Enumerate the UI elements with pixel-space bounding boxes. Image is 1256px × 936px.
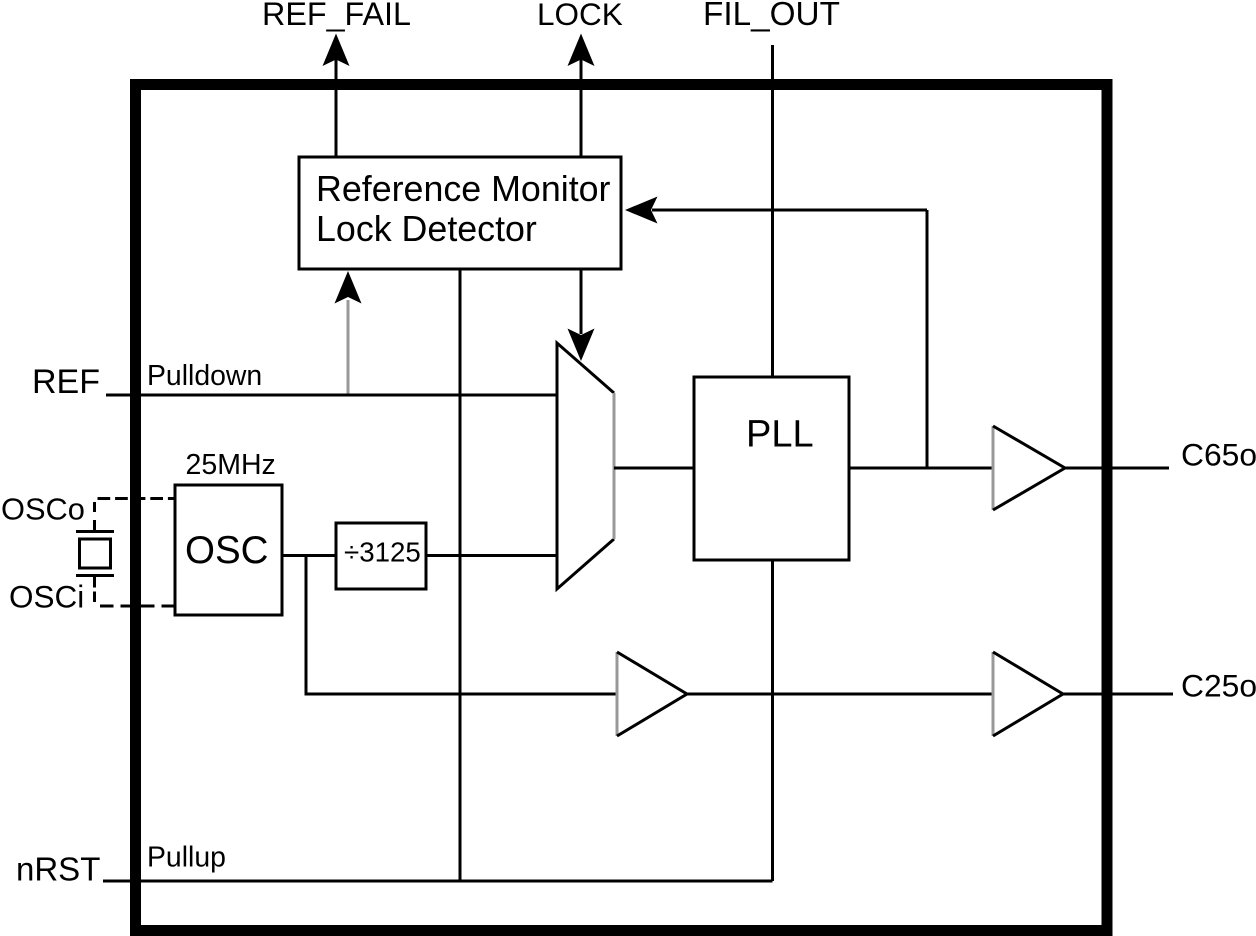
- arrowhead REF sense up: [335, 271, 362, 304]
- svg-text:nRST: nRST: [16, 851, 100, 888]
- buffer lower first: [616, 652, 619, 736]
- svg-text:FIL_OUT: FIL_OUT: [703, 0, 840, 33]
- crystal dashed OSCi horizontal: [100, 605, 175, 608]
- wire select from monitor to mux: [580, 269, 583, 334]
- svg-text:Lock Detector: Lock Detector: [316, 209, 537, 249]
- wire PLL output: [849, 467, 993, 470]
- svg-text:REF_FAIL: REF_FAIL: [262, 0, 411, 32]
- wire PLL bottom to nRST: [771, 560, 774, 881]
- wire REF sense up-arrow (gray): [347, 300, 350, 395]
- svg-text:PLL: PLL: [746, 414, 814, 456]
- wire divider to mux: [426, 554, 557, 557]
- wire feedback vertical: [926, 210, 929, 468]
- block Reference Monitor / Lock Detector: [299, 157, 621, 269]
- crystal dashed OSCo horizontal: [98, 497, 176, 500]
- svg-text:LOCK: LOCK: [537, 0, 623, 32]
- crystal dashed OSCi vertical: [93, 577, 96, 606]
- wire nRST input: [103, 880, 773, 883]
- svg-text:OSCo: OSCo: [1, 492, 85, 527]
- crystal bottom plate: [76, 574, 114, 577]
- arrowhead feedback left: [625, 197, 658, 224]
- wire OSC to divider: [282, 554, 336, 557]
- svg-text:Pullup: Pullup: [147, 842, 226, 874]
- wire REF input: [106, 394, 557, 397]
- wire mux output: [614, 467, 694, 470]
- wire buffer1 to buffer2: [687, 693, 993, 696]
- crystal body: [80, 539, 111, 568]
- block divider: [336, 523, 426, 589]
- crystal dashed OSCo vertical: [93, 502, 96, 531]
- svg-text:C25o: C25o: [1181, 668, 1256, 704]
- block PLL: [694, 377, 849, 560]
- svg-text:Pulldown: Pulldown: [147, 360, 262, 392]
- svg-text:REF: REF: [32, 363, 100, 401]
- svg-text:C65o: C65o: [1181, 437, 1256, 473]
- buffer C25o: [992, 652, 995, 736]
- wire C25o output: [1063, 693, 1173, 696]
- wire C65o output: [1065, 467, 1169, 470]
- block OSC: [175, 485, 282, 615]
- svg-text:25MHz: 25MHz: [186, 449, 276, 481]
- svg-text:OSCi: OSCi: [9, 579, 84, 615]
- crystal top plate: [76, 530, 114, 533]
- arrowhead select down: [568, 329, 595, 362]
- wire REF_FAIL vertical: [335, 38, 338, 157]
- mux trapezoid: [557, 343, 614, 589]
- wire monitor to nRST vertical: [459, 269, 462, 881]
- wire FIL_OUT vertical: [771, 45, 774, 377]
- arrowhead REF_FAIL up: [323, 34, 350, 67]
- wire feedback horizontal into monitor: [652, 209, 927, 212]
- arrowhead LOCK up: [568, 34, 595, 67]
- wire OSC branch down: [306, 556, 617, 695]
- svg-text:Reference Monitor: Reference Monitor: [316, 169, 611, 209]
- buffer C65o: [992, 426, 995, 510]
- chip outline border: [136, 85, 1108, 931]
- wire LOCK vertical: [580, 38, 583, 157]
- svg-text:÷3125: ÷3125: [344, 537, 421, 568]
- svg-text:OSC: OSC: [185, 529, 268, 572]
